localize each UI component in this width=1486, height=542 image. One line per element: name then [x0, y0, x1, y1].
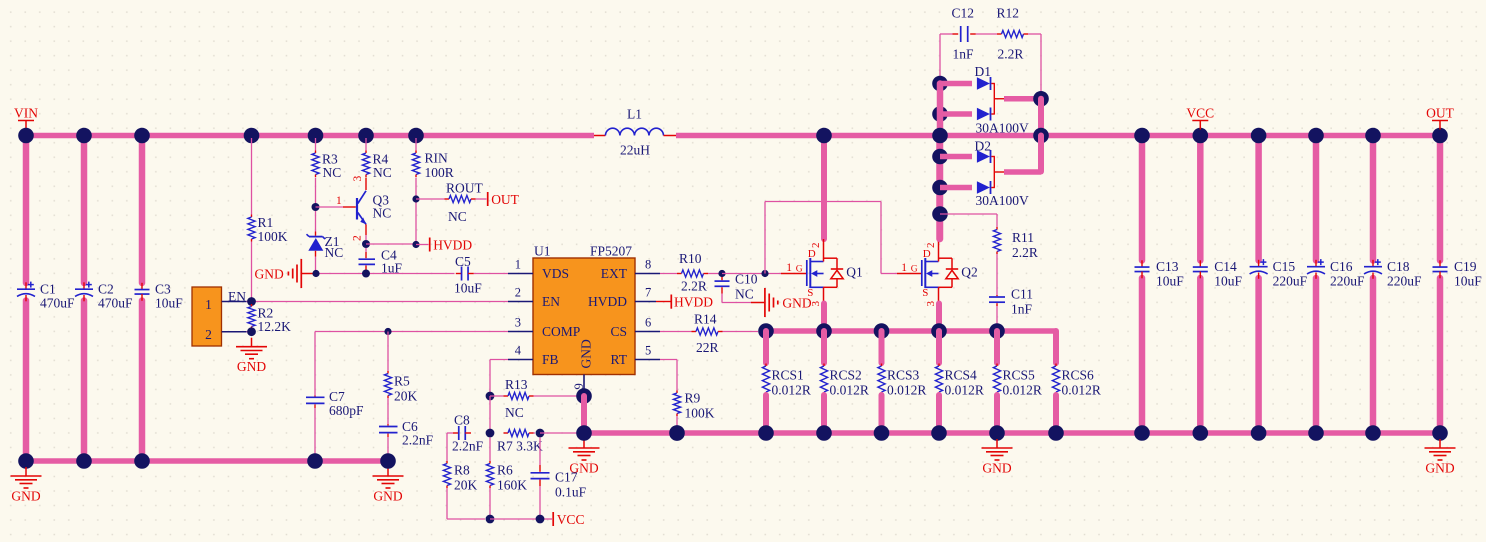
svg-text:470uF: 470uF	[98, 295, 133, 310]
wire C4 top	[365, 248, 367, 252]
transistor Q2	[921, 260, 923, 286]
capacitor C5 10uF	[456, 273, 462, 275]
svg-text:12.2K: 12.2K	[258, 319, 292, 334]
wire ROUT to OUT port	[476, 198, 487, 200]
svg-text:C5: C5	[455, 254, 471, 269]
wire RCS4 bottom stub	[936, 395, 942, 430]
svg-text:G: G	[796, 265, 803, 275]
node D1 out	[1033, 91, 1049, 107]
wire Q1 source bar	[821, 304, 827, 332]
svg-text:2: 2	[205, 327, 212, 342]
svg-text:C19: C19	[1454, 259, 1477, 274]
node U1 GND pin9	[576, 388, 592, 404]
svg-text:D2: D2	[975, 139, 992, 154]
wire bar C15 top	[1255, 136, 1262, 261]
wire R6 top	[489, 438, 491, 462]
node RCS5 top	[989, 323, 1005, 339]
wire HVDD net	[366, 243, 416, 245]
wire R4 top	[365, 138, 367, 151]
wire R5 top	[387, 332, 389, 372]
svg-text:NC: NC	[735, 287, 754, 302]
node RCS4 top	[931, 323, 947, 339]
resistor RCS2 0.012R	[823, 364, 825, 367]
svg-text:5: 5	[645, 344, 651, 358]
resistor R5 20K	[387, 371, 389, 374]
wire RIN top	[415, 138, 417, 151]
svg-text:U1: U1	[534, 244, 551, 259]
inductor L1 22uH	[594, 135, 605, 137]
wire CS net	[660, 331, 692, 333]
wire RCS4 top stub	[936, 331, 942, 363]
svg-text:C11: C11	[1011, 287, 1033, 302]
svg-text:C15: C15	[1273, 259, 1296, 274]
wire bar C1 top	[23, 136, 30, 284]
wire C10 bottom	[721, 294, 723, 303]
wire bar C16 bottom	[1313, 278, 1320, 433]
svg-text:1: 1	[515, 258, 521, 272]
node top bus C19	[1432, 128, 1448, 144]
svg-text:GND: GND	[579, 339, 594, 368]
svg-text:1nF: 1nF	[953, 47, 975, 62]
wire C6 bottom	[387, 437, 389, 461]
wire base node to Q3	[316, 206, 344, 208]
svg-text:2.2R: 2.2R	[681, 279, 707, 294]
wire D2 stub2	[940, 185, 972, 191]
node bottom bus C18	[1365, 425, 1381, 441]
node top bus C14	[1193, 128, 1209, 144]
svg-text:0.012R: 0.012R	[945, 383, 984, 398]
node ROUT junction	[412, 195, 419, 202]
wire D1 join	[993, 84, 995, 115]
svg-text:RCS6: RCS6	[1062, 368, 1095, 383]
svg-text:ROUT: ROUT	[446, 181, 484, 196]
svg-text:R5: R5	[394, 374, 410, 389]
capacitor C15	[1258, 260, 1260, 267]
wire COMP net	[315, 331, 508, 333]
wire FB vertical	[489, 396, 491, 433]
node bottom bus C14	[1193, 425, 1209, 441]
svg-text:220uF: 220uF	[1387, 274, 1422, 289]
resistor R3 NC	[315, 151, 317, 154]
svg-text:22R: 22R	[696, 340, 719, 355]
wire R1 bottom	[251, 242, 253, 302]
node top bus C16	[1308, 128, 1324, 144]
svg-text:3: 3	[810, 301, 822, 307]
svg-text:C8: C8	[454, 413, 470, 428]
svg-text:L1: L1	[627, 107, 642, 122]
node bottom bus C13	[1134, 425, 1150, 441]
resistor RCS4 0.012R	[938, 364, 940, 367]
svg-text:NC: NC	[373, 206, 392, 221]
wire R13 left	[490, 395, 504, 397]
wire bar C16 top	[1313, 136, 1320, 261]
capacitor C2	[83, 282, 85, 289]
node C7 bottom	[307, 453, 323, 469]
resistor R2 12.2K	[251, 304, 253, 307]
wire bar C18 top	[1370, 136, 1377, 261]
node VCC/R6	[486, 515, 495, 524]
node top bus x=84	[76, 128, 92, 144]
svg-text:OUT: OUT	[1426, 106, 1454, 121]
wire top bus right of L1	[676, 133, 1441, 139]
pin 1 VDS	[508, 273, 533, 275]
pin P1-1	[222, 301, 247, 303]
wire RCS2 bottom stub	[821, 395, 827, 430]
wire R11-C11	[996, 254, 998, 295]
wire R10 to C10	[708, 273, 722, 275]
svg-text:CS: CS	[610, 324, 627, 339]
wire C7 bottom	[314, 408, 316, 461]
resistor RCS6 0.012R	[1055, 364, 1057, 367]
node HVDD junction	[412, 241, 419, 248]
wire RCS top bus	[766, 328, 1056, 334]
svg-text:R10: R10	[679, 251, 702, 266]
node D2 in1	[932, 149, 948, 165]
svg-text:2: 2	[810, 243, 822, 249]
svg-text:2: 2	[925, 243, 937, 249]
wire R3 to base node	[315, 178, 317, 208]
svg-text:VCC: VCC	[557, 512, 585, 527]
svg-text:20K: 20K	[394, 389, 418, 404]
pin 2 EN	[508, 301, 533, 303]
svg-text:R7 3.3K: R7 3.3K	[497, 439, 543, 454]
resistor R1 100K	[251, 215, 253, 218]
node R7/C17	[536, 429, 545, 438]
svg-text:EXT: EXT	[601, 266, 628, 281]
node R11 branch	[932, 206, 948, 222]
pin P1-2	[222, 331, 247, 333]
wire RCS5 bottom stub	[994, 395, 1000, 430]
wire bar C3 top	[139, 136, 146, 284]
node bottom bus C19	[1432, 425, 1448, 441]
node C6 bottom	[380, 453, 396, 469]
svg-text:2: 2	[352, 235, 364, 241]
node bottom bus C16	[1308, 425, 1324, 441]
wire R2 bottom	[247, 331, 252, 333]
svg-text:C13: C13	[1156, 259, 1179, 274]
wire bar C2 top	[81, 136, 88, 284]
svg-text:1: 1	[786, 262, 792, 274]
wire bar C19 bottom	[1437, 278, 1444, 433]
svg-text:GND: GND	[237, 359, 266, 374]
wire R8 bottom	[446, 488, 448, 519]
wire bar C18 bottom	[1370, 278, 1377, 433]
svg-text:0.012R: 0.012R	[772, 383, 811, 398]
op-amp U1 FP5207 body	[533, 258, 635, 375]
svg-text:NC: NC	[323, 165, 342, 180]
node top bus C15	[1251, 128, 1267, 144]
svg-text:3: 3	[515, 316, 521, 330]
wire R7 node to bus	[540, 432, 577, 434]
svg-text:100R: 100R	[425, 165, 454, 180]
svg-text:VDS: VDS	[542, 266, 569, 281]
resistor R7 3.3K	[504, 432, 509, 434]
svg-text:FP5207: FP5207	[590, 244, 632, 259]
svg-text:NC: NC	[373, 165, 392, 180]
ground GND bottom-left	[25, 467, 27, 476]
svg-text:1: 1	[336, 195, 342, 207]
node VCC/C17	[536, 515, 545, 524]
wire Q1 drain bar	[821, 138, 827, 239]
pin 3 COMP	[508, 331, 533, 333]
svg-text:160K: 160K	[497, 478, 527, 493]
wire R13 right	[534, 395, 578, 397]
svg-text:220uF: 220uF	[1273, 274, 1308, 289]
svg-text:R8: R8	[454, 463, 470, 478]
node RCS3 top	[874, 323, 890, 339]
wire R4 to Q3 collector	[365, 178, 367, 191]
node top bus x=142	[134, 128, 150, 144]
capacitor C11 1nF	[996, 295, 998, 296]
svg-text:RIN: RIN	[425, 151, 449, 166]
resistor R10 2.2R	[677, 273, 682, 275]
resistor RCS1 0.012R	[765, 364, 767, 367]
node RCS4 bottom	[931, 425, 947, 441]
svg-text:10uF: 10uF	[1156, 274, 1184, 289]
capacitor C14	[1199, 260, 1201, 267]
svg-text:10uF: 10uF	[1214, 274, 1242, 289]
svg-text:HVDD: HVDD	[588, 294, 627, 309]
wire C4 bottom	[365, 271, 367, 274]
pin 6 CS	[635, 331, 660, 333]
node D2 in2	[932, 180, 948, 196]
wire R14 to RCS bus	[723, 331, 759, 333]
wire D2 join	[993, 157, 995, 188]
node RCS1 bottom	[758, 425, 774, 441]
svg-text:R11: R11	[1012, 230, 1034, 245]
wire C11 bottom	[996, 306, 998, 331]
svg-text:C18: C18	[1387, 259, 1410, 274]
node FB/R13	[486, 392, 495, 401]
wire VIN top bus left of L1	[25, 133, 594, 139]
svg-text:C14: C14	[1214, 259, 1237, 274]
svg-text:2.2nF: 2.2nF	[452, 439, 484, 454]
wire bar C2 bottom	[81, 301, 88, 462]
svg-text:2.2R: 2.2R	[1012, 245, 1038, 260]
wire C12-R12	[976, 33, 997, 35]
node R2 bottom	[247, 327, 256, 336]
resistor RCS3 0.012R	[881, 364, 883, 367]
port VCC bottom	[552, 512, 554, 526]
node RCS2 bottom	[816, 425, 832, 441]
pin 9 GND	[583, 375, 585, 394]
node bottom bus x=142	[134, 453, 150, 469]
diode D2b	[977, 181, 990, 194]
svg-text:6: 6	[645, 316, 651, 330]
svg-text:NC: NC	[448, 209, 467, 224]
svg-text:2: 2	[515, 286, 521, 300]
wire right col top	[1038, 99, 1044, 136]
svg-text:G: G	[911, 265, 918, 275]
resistor R6 160K	[489, 461, 491, 464]
pin 7 HVDD	[635, 301, 656, 303]
svg-text:EN: EN	[542, 294, 560, 309]
wire bar C19 top	[1437, 136, 1444, 261]
svg-text:1: 1	[901, 262, 907, 274]
wire R11 top	[940, 213, 997, 215]
node R9 bottom redraw	[669, 425, 685, 441]
node bottom bus C15	[1251, 425, 1267, 441]
svg-text:0.012R: 0.012R	[887, 383, 926, 398]
ground GND bottom-right corner	[1439, 439, 1441, 448]
wire R9 bottom	[676, 416, 678, 433]
ground GND bar-style right	[751, 302, 764, 304]
wire D2 out	[1004, 169, 1041, 175]
port HVDD left	[429, 238, 431, 252]
node RCS3 bottom	[874, 425, 890, 441]
svg-text:C16: C16	[1330, 259, 1353, 274]
diode D2a	[977, 150, 990, 163]
capacitor C13	[1141, 260, 1143, 267]
wire Q3 emitter	[365, 224, 367, 235]
wire C5 to U1 pin1	[474, 273, 508, 275]
wire left col thick	[937, 84, 944, 240]
resistor R13 NC	[504, 395, 509, 397]
wire gate Q2	[881, 273, 897, 275]
node D1 in2	[932, 106, 948, 122]
wire VCC net	[490, 518, 540, 520]
node C8/R7/R6	[486, 429, 495, 438]
wire Z1 top	[315, 211, 317, 232]
svg-text:Q2: Q2	[961, 265, 978, 280]
node RCS1 top	[758, 323, 774, 339]
node RIN top	[408, 128, 424, 144]
svg-text:1nF: 1nF	[1011, 302, 1033, 317]
wire D1 out	[1004, 96, 1038, 102]
wire bar C14 bottom	[1197, 278, 1204, 433]
resistor RCS5 0.012R	[996, 364, 998, 367]
svg-text:RCS5: RCS5	[1003, 368, 1036, 383]
wire R3 top	[315, 138, 317, 151]
capacitor C12 1nF	[953, 33, 959, 35]
node top bus C13	[1134, 128, 1150, 144]
svg-text:S: S	[807, 287, 813, 299]
svg-text:VIN: VIN	[14, 106, 38, 121]
connector P1	[192, 287, 222, 346]
node C10 top	[718, 270, 725, 277]
resistor R14 22R	[692, 331, 697, 333]
capacitor C16	[1315, 260, 1317, 267]
ground GND below R5/C6	[387, 467, 389, 476]
svg-text:4: 4	[515, 344, 522, 358]
node top bus C18	[1365, 128, 1381, 144]
svg-text:30A100V: 30A100V	[976, 121, 1029, 136]
svg-text:C1: C1	[40, 281, 56, 296]
wire R5-C6	[387, 398, 389, 424]
zener diode Z1 NC	[315, 232, 317, 236]
svg-text:20K: 20K	[454, 478, 478, 493]
svg-text:7: 7	[645, 286, 651, 300]
svg-text:D: D	[808, 248, 816, 260]
svg-text:R14: R14	[694, 312, 717, 327]
node C4 bottom	[362, 270, 370, 278]
capacitor C18	[1372, 260, 1374, 267]
node top bus x=26	[18, 128, 34, 144]
resistor R9 100K	[676, 391, 678, 394]
wire D1 stub2	[940, 111, 972, 117]
wire EN net	[247, 301, 508, 303]
svg-text:2.2nF: 2.2nF	[402, 433, 434, 448]
svg-text:10uF: 10uF	[1454, 274, 1482, 289]
svg-text:8: 8	[645, 258, 651, 272]
ground GND below R2	[251, 338, 253, 347]
svg-text:2.2R: 2.2R	[998, 47, 1024, 62]
resistor RIN 100R	[415, 151, 417, 154]
wire RIN bottom	[415, 178, 417, 242]
svg-text:0.1uF: 0.1uF	[555, 485, 587, 500]
node EN junction	[247, 297, 256, 306]
wire RT net	[660, 359, 677, 361]
svg-text:NC: NC	[505, 405, 524, 420]
resistor R11 2.2R	[996, 227, 998, 230]
node bottom bus x=84	[76, 453, 92, 469]
svg-text:0.012R: 0.012R	[1003, 383, 1042, 398]
capacitor C19	[1439, 260, 1441, 267]
wire snubber left	[940, 33, 953, 35]
svg-text:OUT: OUT	[491, 192, 519, 207]
capacitor C8 2.2nF	[453, 432, 459, 434]
svg-text:VCC: VCC	[1186, 106, 1214, 121]
svg-text:NC: NC	[325, 245, 344, 260]
svg-text:D1: D1	[975, 64, 992, 79]
resistor ROUT NC	[445, 198, 450, 200]
svg-text:3: 3	[925, 301, 937, 307]
capacitor C3	[141, 283, 143, 290]
svg-text:RCS4: RCS4	[945, 368, 978, 383]
port OUT (ROUT)	[487, 192, 489, 206]
svg-text:S: S	[922, 287, 928, 299]
wire RCS6 bottom stub	[1053, 395, 1059, 430]
svg-text:10uF: 10uF	[454, 281, 482, 296]
node COMP/R5	[384, 328, 391, 335]
svg-text:GND: GND	[11, 489, 40, 504]
wire RCS3 top stub	[879, 331, 885, 363]
svg-text:C12: C12	[952, 6, 975, 21]
svg-text:C2: C2	[98, 281, 114, 296]
wire Q2 source bar	[936, 304, 942, 332]
wire EXT net	[660, 273, 677, 275]
svg-text:R6: R6	[497, 463, 513, 478]
capacitor C7 680pF	[314, 396, 316, 397]
wire ROUT	[416, 198, 445, 200]
node RCS6 bottom	[1048, 425, 1064, 441]
svg-text:GND: GND	[1425, 461, 1454, 476]
svg-text:1: 1	[205, 297, 212, 312]
node R9 bottom	[669, 425, 685, 441]
wire HVDD to port	[416, 244, 429, 246]
wire FB net	[490, 359, 508, 361]
svg-text:GND: GND	[373, 489, 402, 504]
node Q3 base	[312, 203, 320, 211]
wire gate branch down	[880, 202, 882, 274]
svg-text:30A100V: 30A100V	[976, 193, 1029, 208]
node R1 top	[244, 128, 260, 144]
node Q1 drain top	[816, 128, 832, 144]
svg-text:3: 3	[352, 176, 364, 182]
svg-text:RCS1: RCS1	[772, 368, 804, 383]
svg-text:680pF: 680pF	[329, 403, 364, 418]
svg-text:HVDD: HVDD	[433, 237, 472, 252]
wire Q2 drain bar	[936, 138, 943, 239]
wire bar C3 bottom	[139, 301, 146, 462]
wire bar C15 bottom	[1255, 278, 1262, 433]
ground GND below pin9 bus	[583, 439, 585, 448]
capacitor C1	[25, 282, 27, 289]
wire RCS1 top stub	[763, 331, 769, 363]
wire RCS2 top stub	[821, 331, 827, 363]
node gate branch	[761, 270, 768, 277]
node RCS5 bottom	[989, 425, 1005, 441]
